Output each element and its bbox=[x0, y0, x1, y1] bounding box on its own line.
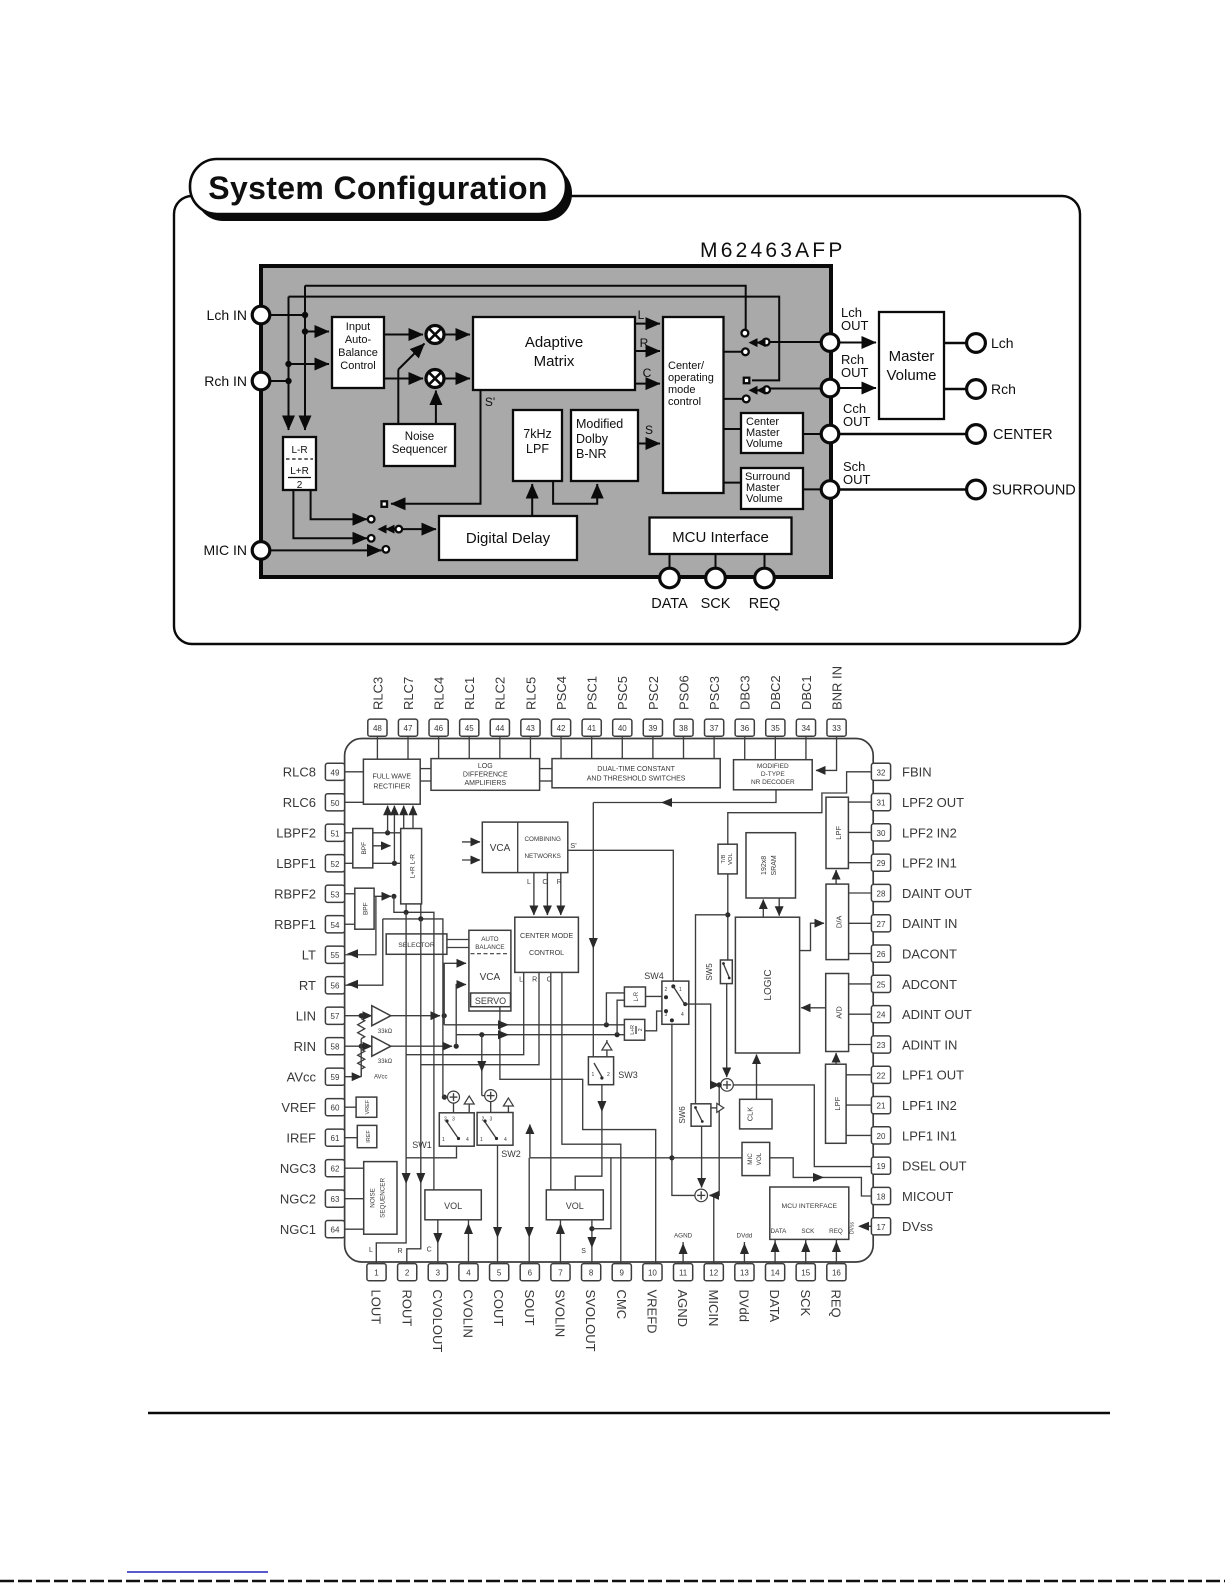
wire pin48 stub bbox=[376, 736, 378, 759]
wire MCU stub SCK bbox=[715, 554, 717, 569]
block SERVO bbox=[471, 993, 511, 1007]
svg-text:L+R L-R: L+R L-R bbox=[409, 854, 416, 879]
svg-text:Center/: Center/ bbox=[668, 360, 705, 372]
pin 30 LPF2 IN2 (right) bbox=[871, 824, 957, 841]
svg-text:CENTER: CENTER bbox=[993, 427, 1053, 443]
terminal Lch IN bbox=[252, 306, 270, 324]
pin 39 PSC2 (top) bbox=[643, 676, 662, 736]
svg-text:54: 54 bbox=[331, 921, 340, 930]
mic selector pole bbox=[396, 526, 403, 533]
svg-text:VREF: VREF bbox=[281, 1100, 316, 1115]
wire pin11 AGND arrow up bbox=[682, 1242, 684, 1264]
svg-text:LPF: LPF bbox=[526, 442, 549, 456]
svg-text:LPF2 OUT: LPF2 OUT bbox=[902, 795, 964, 810]
svg-text:T/B: T/B bbox=[721, 854, 727, 863]
wire B-NR S out to mode control bbox=[638, 443, 660, 445]
switch2 contact pole bbox=[763, 386, 770, 393]
block T/B VOL bbox=[718, 844, 737, 874]
svg-text:RLC4: RLC4 bbox=[432, 677, 447, 710]
wire FWR to LOG DIFF upper bbox=[420, 768, 431, 770]
svg-text:3: 3 bbox=[452, 1117, 455, 1123]
svg-text:OUT: OUT bbox=[841, 318, 869, 333]
wire SRAM to LOGIC down bbox=[778, 898, 780, 916]
svg-text:PSC3: PSC3 bbox=[707, 676, 722, 710]
wire VOL1 to pin3 CVOLOUT bbox=[437, 1220, 439, 1264]
svg-text:LOUT: LOUT bbox=[369, 1290, 384, 1325]
wire pin60 to VREF bbox=[345, 1106, 357, 1108]
svg-text:2: 2 bbox=[405, 1269, 410, 1278]
pin 57 LIN (left) bbox=[296, 1007, 345, 1024]
wire CMV to Cch OUT bbox=[803, 433, 822, 435]
svg-text:DATA: DATA bbox=[770, 1228, 787, 1235]
svg-text:L+R: L+R bbox=[630, 1025, 636, 1035]
wire CMC L output to LOUT column bbox=[406, 972, 524, 1054]
svg-text:AND THRESHOLD SWITCHES: AND THRESHOLD SWITCHES bbox=[587, 776, 686, 783]
svg-text:52: 52 bbox=[331, 860, 340, 869]
svg-text:S': S' bbox=[570, 841, 577, 850]
mic selector wiper arrows bbox=[381, 528, 395, 530]
svg-text:2: 2 bbox=[638, 1028, 644, 1031]
svg-text:38: 38 bbox=[679, 724, 688, 733]
block Master Volume bbox=[879, 312, 944, 419]
svg-text:VCA: VCA bbox=[490, 843, 511, 854]
svg-text:Matrix: Matrix bbox=[534, 353, 575, 370]
wire pin34 stub bbox=[805, 736, 807, 759]
wire X1 to Adaptive Matrix bbox=[444, 334, 470, 336]
svg-text:Control: Control bbox=[340, 360, 375, 372]
junction dot Lch 2 bbox=[302, 328, 308, 334]
multiplier circle X1 bbox=[426, 326, 444, 344]
pin 52 LBPF1 (left) bbox=[276, 855, 344, 872]
wire pin58 RIN line bbox=[345, 1045, 372, 1047]
pin 50 RLC6 (left) bbox=[283, 794, 345, 811]
wire FBIN route from pin32 bbox=[728, 772, 872, 844]
svg-text:61: 61 bbox=[331, 1134, 340, 1143]
pin 49 RLC8 (left) bbox=[283, 763, 345, 780]
block L-R over L+R/2 bbox=[283, 437, 316, 490]
wire SW2 pole to pin5 COUT bbox=[497, 1145, 499, 1263]
svg-text:DIFFERENCE: DIFFERENCE bbox=[463, 772, 508, 779]
wire pin43 stub bbox=[529, 736, 531, 758]
wire AM R out bbox=[635, 350, 660, 352]
wire LOG DIFF to DUAL-TIME lower bbox=[540, 780, 552, 782]
svg-text:VCA: VCA bbox=[480, 972, 501, 983]
svg-text:16: 16 bbox=[832, 1269, 841, 1278]
mic selector contact 3 bbox=[383, 546, 390, 553]
block Center operating mode control bbox=[663, 317, 724, 493]
wire vertical Lch junction column bbox=[304, 286, 306, 315]
svg-text:45: 45 bbox=[465, 724, 474, 733]
svg-text:Rch: Rch bbox=[991, 381, 1016, 397]
wire matrix stub A bbox=[405, 904, 407, 912]
IC chip outline bbox=[345, 739, 874, 1263]
wire pin64 to NS bbox=[345, 1228, 364, 1230]
grey IC body bbox=[261, 266, 831, 577]
svg-text:LOGIC: LOGIC bbox=[763, 969, 774, 1000]
wire pin62 to NS bbox=[345, 1167, 364, 1169]
junction dot LBPF2 bbox=[385, 830, 390, 835]
svg-text:A/D: A/D bbox=[834, 1006, 843, 1019]
switch1 wiper arrows bbox=[752, 342, 763, 344]
footer blue link line bbox=[127, 1571, 268, 1573]
svg-text:22: 22 bbox=[877, 1071, 886, 1080]
wire mode control to CMV bbox=[724, 428, 742, 430]
svg-text:11: 11 bbox=[679, 1269, 688, 1278]
pin 10 VREFD (bottom) bbox=[643, 1264, 662, 1334]
svg-text:LT: LT bbox=[302, 948, 316, 963]
wire SW5 down to sum1 bbox=[726, 984, 728, 1077]
pin 17 DVss (right) bbox=[871, 1218, 933, 1235]
wire LIN buffer out bbox=[391, 1015, 440, 1017]
svg-text:DBC2: DBC2 bbox=[768, 675, 783, 710]
title banner shadow bbox=[196, 166, 572, 221]
junction LIN bias bbox=[359, 1013, 364, 1018]
wire bus B2 into sum SW1 bbox=[442, 1094, 444, 1097]
pin 32 FBIN (right) bbox=[871, 763, 931, 780]
svg-text:AGND: AGND bbox=[675, 1290, 690, 1328]
svg-text:BPF: BPF bbox=[361, 842, 368, 855]
svg-text:DAINT OUT: DAINT OUT bbox=[902, 886, 972, 901]
svg-text:SCK: SCK bbox=[701, 596, 731, 612]
wire mic bus to MIC VOL bbox=[672, 1157, 742, 1159]
svg-text:RECTIFIER: RECTIFIER bbox=[373, 784, 410, 791]
pin 41 PSC1 (top) bbox=[582, 676, 601, 736]
terminal Cch OUT bbox=[821, 425, 839, 443]
switch1 contact pole bbox=[763, 339, 770, 346]
wire LIN out riser to VCA bbox=[444, 963, 466, 1015]
pin 35 DBC2 (top) bbox=[766, 675, 785, 736]
svg-text:33kΩ: 33kΩ bbox=[378, 1029, 393, 1035]
svg-text:SVOLIN: SVOLIN bbox=[553, 1290, 568, 1338]
wire SOUT net to mic junction bbox=[611, 1157, 672, 1159]
svg-text:SW2: SW2 bbox=[501, 1149, 521, 1159]
wire SVOLOUT branch to SOUT net bbox=[530, 1158, 611, 1229]
wire pin20 LPF1 IN1 bbox=[846, 1134, 871, 1136]
svg-text:LBPF2: LBPF2 bbox=[276, 826, 316, 841]
block VREF bbox=[356, 1097, 377, 1117]
svg-text:VOL: VOL bbox=[756, 1152, 763, 1165]
wire L-R box out 1 to switch bbox=[311, 490, 367, 519]
svg-text:DUAL-TIME CONSTANT: DUAL-TIME CONSTANT bbox=[597, 766, 675, 773]
svg-text:9: 9 bbox=[620, 1269, 625, 1278]
wire FWR input 3 bbox=[403, 806, 405, 829]
wire MCU stub REQ bbox=[764, 554, 766, 569]
svg-text:SERVO: SERVO bbox=[475, 996, 506, 1006]
pin 12 MICIN (bottom) bbox=[704, 1264, 723, 1327]
wire sum SW2 down into SW2 bbox=[490, 1102, 492, 1113]
wire BPF upper output bbox=[373, 845, 391, 847]
mic selector contact 1 bbox=[368, 516, 375, 523]
wire CMC R output to ROUT column bbox=[421, 972, 539, 1064]
svg-text:32: 32 bbox=[877, 768, 886, 777]
pin 63 NGC2 (left) bbox=[280, 1190, 345, 1207]
svg-text:35: 35 bbox=[771, 724, 780, 733]
terminal Rch bbox=[967, 380, 986, 399]
svg-text:51: 51 bbox=[331, 829, 340, 838]
svg-text:L: L bbox=[527, 879, 531, 886]
svg-text:MODIFIED: MODIFIED bbox=[757, 763, 789, 770]
svg-text:Dolby: Dolby bbox=[576, 432, 609, 446]
svg-text:1: 1 bbox=[592, 1072, 595, 1078]
block VOL surround bbox=[546, 1190, 603, 1220]
wire pin22 LPF1 OUT bbox=[846, 1074, 871, 1076]
pin 53 RBPF2 (left) bbox=[274, 885, 345, 902]
wire SW4 contact4 drop to mic junction bbox=[671, 1020, 673, 1157]
wire vertical Rch junction column bbox=[288, 297, 290, 430]
wire MICIN pin12 to mic sum bbox=[710, 1195, 714, 1263]
wire pin25 ADCONT bbox=[849, 983, 872, 985]
svg-text:NGC3: NGC3 bbox=[280, 1161, 316, 1176]
block L+R L-R matrix bbox=[401, 829, 422, 904]
svg-text:RLC8: RLC8 bbox=[283, 765, 316, 780]
block NOISE SEQUENCER bbox=[364, 1162, 397, 1235]
contact square S-prime bbox=[382, 501, 388, 507]
amplifier triangle LIN bbox=[372, 1006, 391, 1026]
svg-text:AGND: AGND bbox=[674, 1233, 693, 1240]
svg-text:58: 58 bbox=[331, 1043, 340, 1052]
pin 2 ROUT (bottom) bbox=[398, 1264, 417, 1327]
junction bus B split bbox=[418, 916, 423, 921]
wire pin51 LBPF2 to BPF and matrix bbox=[345, 832, 401, 834]
junction R line riser bbox=[615, 1032, 620, 1037]
wire NR column down to SW3 bbox=[592, 803, 594, 1057]
svg-text:C: C bbox=[427, 1247, 432, 1254]
svg-text:30: 30 bbox=[877, 829, 886, 838]
svg-text:39: 39 bbox=[648, 724, 657, 733]
wire AVcc line bbox=[345, 1076, 362, 1078]
svg-text:6: 6 bbox=[528, 1269, 533, 1278]
svg-text:LPF1 OUT: LPF1 OUT bbox=[902, 1068, 964, 1083]
svg-text:8: 8 bbox=[589, 1269, 594, 1278]
open contact symbol above SW1 bbox=[468, 1104, 470, 1113]
wire pin36 stub bbox=[744, 736, 746, 759]
pin 8 SVOLOUT (bottom) bbox=[582, 1264, 601, 1352]
svg-text:62: 62 bbox=[331, 1165, 340, 1174]
wire LPF1 to A/D bbox=[835, 1053, 837, 1064]
mic selector contact 2 bbox=[368, 535, 375, 542]
svg-text:34: 34 bbox=[801, 724, 810, 733]
pin 42 PSC4 (top) bbox=[551, 676, 570, 736]
wire pin54 RBPF1 to BPF lower bbox=[345, 923, 355, 925]
svg-text:VREFD: VREFD bbox=[645, 1290, 660, 1334]
wire LT line bbox=[345, 896, 376, 954]
junction sum1 branch bbox=[717, 1082, 722, 1087]
wire FWR input 4 bbox=[412, 806, 414, 829]
svg-text:REQ: REQ bbox=[749, 596, 780, 612]
open arrow right of SW6 bbox=[711, 1107, 717, 1109]
svg-text:SRAM: SRAM bbox=[771, 855, 778, 875]
pin 51 LBPF2 (left) bbox=[276, 824, 344, 841]
svg-text:37: 37 bbox=[710, 724, 719, 733]
svg-text:OUT: OUT bbox=[841, 365, 869, 380]
wire mic sum left input riser bbox=[672, 1158, 695, 1196]
wire pin4 CVOLIN to VOL1 bbox=[467, 1220, 469, 1264]
pin 11 AGND (bottom) bbox=[674, 1264, 693, 1327]
svg-text:AMPLIFIERS: AMPLIFIERS bbox=[464, 780, 506, 787]
svg-text:OUT: OUT bbox=[843, 472, 871, 487]
svg-text:R: R bbox=[640, 336, 649, 350]
wire pin30 LPF2 IN2 bbox=[848, 831, 871, 833]
svg-text:DVdd: DVdd bbox=[737, 1290, 752, 1323]
wire pin23 ADINT IN bbox=[849, 1044, 872, 1046]
svg-text:REQ: REQ bbox=[829, 1228, 843, 1235]
block AUTO BALANCE VCA SERVO bbox=[469, 930, 511, 1011]
svg-text:RBPF2: RBPF2 bbox=[274, 887, 316, 902]
wire A/D to LOGIC bbox=[801, 1007, 826, 1009]
svg-text:VOL: VOL bbox=[566, 1201, 584, 1211]
svg-text:AVcc: AVcc bbox=[374, 1075, 388, 1081]
svg-text:SVOLOUT: SVOLOUT bbox=[583, 1290, 598, 1352]
junction dot into sum SW2 bbox=[479, 1032, 484, 1037]
wire X2 to Adaptive Matrix bbox=[444, 378, 470, 380]
svg-text:S: S bbox=[581, 1248, 586, 1255]
block MODIFIED D-TYPE NR DECODER bbox=[734, 760, 813, 790]
svg-text:AVcc: AVcc bbox=[287, 1070, 317, 1085]
pin 55 LT (left) bbox=[302, 946, 345, 963]
svg-text:DBC1: DBC1 bbox=[799, 675, 814, 710]
svg-text:M62463AFP: M62463AFP bbox=[700, 239, 846, 262]
svg-text:S': S' bbox=[485, 395, 495, 409]
block LPF1 bbox=[826, 1064, 847, 1143]
wire FWR input 2 bbox=[393, 806, 395, 863]
wire AVcc bias column bbox=[360, 1039, 362, 1077]
block MCU INTERFACE bbox=[770, 1187, 849, 1239]
wire SMV to Sch OUT bbox=[803, 488, 822, 490]
wire into VCA in1 bbox=[462, 841, 480, 843]
block D/A bbox=[826, 884, 849, 960]
block LOG DIFFERENCE AMPLIFIERS bbox=[431, 759, 540, 791]
svg-text:FULL WAVE: FULL WAVE bbox=[372, 774, 411, 781]
pin 64 NGC1 (left) bbox=[280, 1221, 345, 1238]
wire SW6 down to mic sum bbox=[701, 1126, 703, 1187]
svg-text:59: 59 bbox=[331, 1073, 340, 1082]
footer horizontal rule bbox=[148, 1412, 1110, 1415]
wire pin16 REQ up to MCU bbox=[835, 1239, 837, 1263]
svg-text:L+R: L+R bbox=[290, 466, 309, 477]
svg-text:Master: Master bbox=[889, 348, 935, 365]
block SW4 bbox=[662, 981, 689, 1024]
pin 19 DSEL OUT (right) bbox=[871, 1157, 966, 1174]
svg-text:IREF: IREF bbox=[286, 1131, 316, 1146]
junction RIN out bbox=[454, 1044, 459, 1049]
svg-text:2: 2 bbox=[297, 480, 303, 491]
sum circle SW2 bbox=[485, 1090, 497, 1102]
svg-text:SCK: SCK bbox=[798, 1290, 813, 1317]
wire L-R box to SW4 contact2 bbox=[646, 995, 664, 997]
switch2 contact bottom bbox=[743, 396, 750, 403]
block Noise Sequencer bbox=[384, 424, 455, 466]
resistor LIN bias bbox=[358, 1019, 365, 1039]
wire Lch IN to junction bbox=[270, 314, 305, 316]
wire pin7 SVOLIN to VOL2 bbox=[559, 1220, 561, 1264]
svg-text:C: C bbox=[643, 366, 652, 380]
svg-text:PSC1: PSC1 bbox=[585, 676, 600, 710]
wire LOUT column bbox=[376, 912, 406, 1263]
svg-text:D-TYPE: D-TYPE bbox=[761, 771, 786, 778]
svg-text:7: 7 bbox=[558, 1269, 563, 1278]
svg-text:Volume: Volume bbox=[746, 493, 783, 505]
wire pin27 DAINT IN bbox=[849, 922, 872, 924]
svg-text:64: 64 bbox=[331, 1226, 340, 1235]
svg-text:S: S bbox=[645, 423, 653, 437]
svg-text:7kHz: 7kHz bbox=[523, 427, 551, 441]
svg-text:R: R bbox=[397, 1248, 402, 1255]
wire pin24 ADINT OUT bbox=[849, 1013, 872, 1015]
svg-text:COMBINING: COMBINING bbox=[525, 836, 561, 843]
terminal Rch OUT bbox=[821, 379, 839, 397]
pin 60 VREF (left) bbox=[281, 1099, 344, 1116]
pin 45 RLC1 (top) bbox=[460, 677, 479, 737]
terminal Sch OUT bbox=[821, 481, 839, 499]
pin 61 IREF (left) bbox=[286, 1129, 344, 1146]
svg-text:50: 50 bbox=[331, 799, 340, 808]
svg-text:48: 48 bbox=[373, 724, 382, 733]
svg-text:Sequencer: Sequencer bbox=[392, 444, 448, 456]
svg-text:RLC5: RLC5 bbox=[523, 677, 538, 710]
svg-text:24: 24 bbox=[877, 1011, 886, 1020]
svg-text:NETWORKS: NETWORKS bbox=[525, 853, 561, 860]
junction LIN out bbox=[442, 1013, 447, 1018]
svg-text:41: 41 bbox=[587, 724, 596, 733]
svg-text:1: 1 bbox=[679, 987, 682, 993]
pin 23 ADINT IN (right) bbox=[871, 1036, 957, 1053]
wire Cch OUT to CENTER bbox=[839, 433, 966, 436]
pin 25 ADCONT (right) bbox=[871, 975, 957, 992]
pin 15 SCK (bottom) bbox=[796, 1264, 815, 1317]
block Adaptive Matrix bbox=[473, 317, 635, 390]
svg-text:DVss: DVss bbox=[850, 1222, 856, 1234]
wire matrix stub B bbox=[420, 904, 422, 919]
wire pin52 LBPF1 to BPF and matrix bbox=[345, 862, 401, 864]
svg-text:PSO6: PSO6 bbox=[676, 675, 691, 710]
terminal CENTER bbox=[967, 425, 986, 444]
wire AM L out bbox=[635, 323, 660, 325]
wire pin61 to IREF bbox=[345, 1137, 358, 1139]
block FULL WAVE RECTIFIER bbox=[363, 759, 420, 804]
svg-text:BNR IN: BNR IN bbox=[829, 666, 844, 710]
wire SW4 pole output bbox=[685, 1004, 719, 1085]
svg-text:LPF1 IN1: LPF1 IN1 bbox=[902, 1128, 957, 1143]
pin 56 RT (left) bbox=[299, 977, 345, 994]
wire SELECTOR to AUTO BALANCE 1 bbox=[447, 939, 469, 941]
svg-text:ROUT: ROUT bbox=[399, 1290, 414, 1327]
wire pin21 LPF1 IN2 bbox=[846, 1104, 871, 1106]
wire pin53 RBPF2 to BPF lower bbox=[345, 893, 355, 895]
svg-text:Balance: Balance bbox=[338, 347, 378, 359]
pin 7 SVOLIN (bottom) bbox=[551, 1264, 570, 1338]
wire MCU stub DATA bbox=[669, 554, 671, 569]
pin 21 LPF1 IN2 (right) bbox=[871, 1097, 957, 1114]
svg-text:47: 47 bbox=[404, 724, 413, 733]
svg-text:5: 5 bbox=[497, 1269, 502, 1278]
wire CMC fourth output to pin9 CMC bbox=[562, 972, 621, 1263]
wire Rch OUT to Master Volume bbox=[839, 387, 876, 389]
svg-text:LPF: LPF bbox=[833, 1096, 842, 1110]
block MCU Interface bbox=[650, 518, 792, 555]
wire sum1 output to DSEL OUT pin19 bbox=[733, 1085, 871, 1167]
svg-text:LBPF1: LBPF1 bbox=[276, 856, 316, 871]
wire pin42 stub bbox=[560, 736, 562, 758]
svg-text:D/A: D/A bbox=[835, 916, 844, 929]
svg-text:DATA: DATA bbox=[767, 1290, 782, 1323]
svg-text:LOG: LOG bbox=[478, 763, 493, 770]
block SELECTOR bbox=[386, 934, 447, 954]
svg-text:1: 1 bbox=[480, 1137, 483, 1143]
pin 54 RBPF1 (left) bbox=[274, 916, 345, 933]
svg-text:23: 23 bbox=[877, 1041, 886, 1050]
block CLK bbox=[740, 1099, 772, 1129]
block LPF2 bbox=[826, 797, 848, 868]
